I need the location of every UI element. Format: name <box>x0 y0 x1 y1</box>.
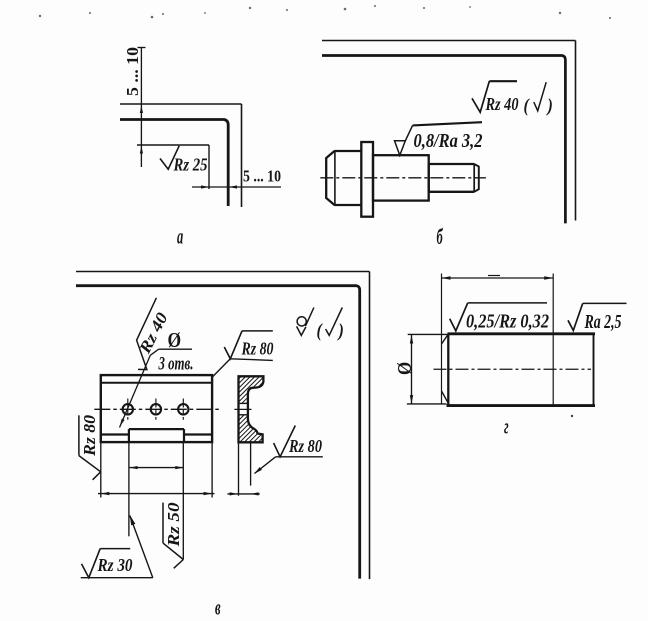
svg-text:): ) <box>546 94 553 116</box>
svg-text:Rz 40: Rz 40 <box>485 94 519 114</box>
svg-text:Ø: Ø <box>394 362 417 375</box>
svg-text:б: б <box>437 224 444 249</box>
svg-text:Ra 2,5: Ra 2,5 <box>584 311 622 334</box>
svg-text:а: а <box>177 224 183 249</box>
svg-text:0,25/Rz 0,32: 0,25/Rz 0,32 <box>466 310 549 333</box>
svg-text:5 ... 10: 5 ... 10 <box>124 47 142 96</box>
svg-text:Rz 30: Rz 30 <box>97 555 133 575</box>
svg-text:Rz 25: Rz 25 <box>173 154 208 174</box>
svg-text:Rz 80: Rz 80 <box>241 338 274 358</box>
svg-text:Rz 80: Rz 80 <box>81 415 99 457</box>
svg-text:г: г <box>504 414 509 439</box>
svg-text:): ) <box>337 319 344 341</box>
svg-text:в: в <box>215 595 221 620</box>
svg-text:5 ... 10: 5 ... 10 <box>243 167 281 185</box>
svg-text:Rz 80: Rz 80 <box>288 436 322 456</box>
svg-text:0,8/Ra 3,2: 0,8/Ra 3,2 <box>414 130 483 153</box>
svg-text:3 отв.: 3 отв. <box>158 352 194 374</box>
svg-text:Rz 50: Rz 50 <box>165 502 183 547</box>
